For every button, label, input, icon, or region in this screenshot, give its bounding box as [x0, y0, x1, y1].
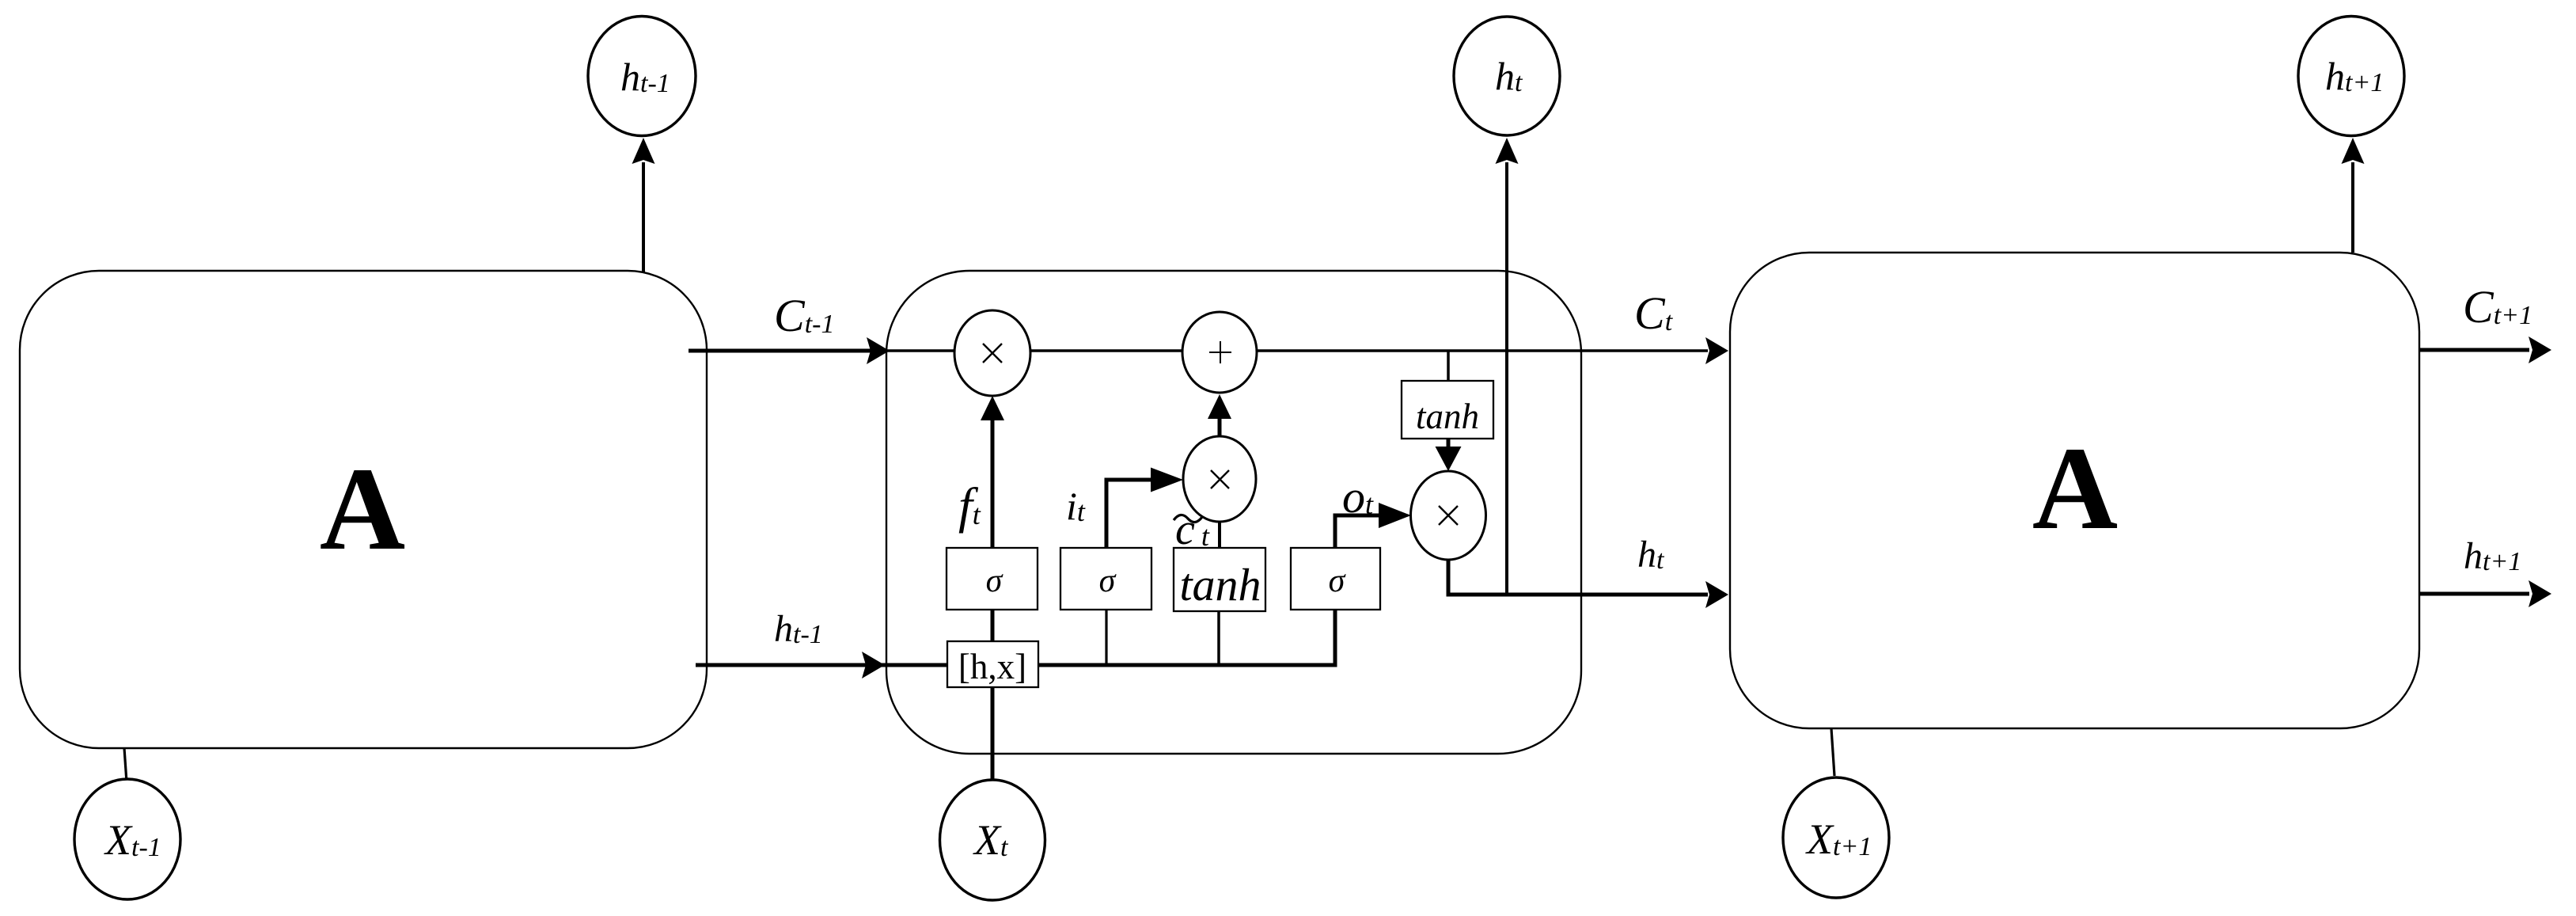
tanh top box — [1402, 381, 1493, 439]
arrowhead h into cell — [862, 652, 885, 678]
block LSTM cell — [886, 271, 1581, 754]
node Xt+1 — [1783, 777, 1889, 898]
svg-text:A: A — [2032, 423, 2118, 554]
wire x2 to tanh-gate — [1218, 522, 1221, 548]
wire ht riser — [1505, 162, 1508, 595]
wire sigma1 to hx — [991, 610, 995, 643]
node Xt — [940, 780, 1045, 900]
svg-text:σ: σ — [1099, 563, 1117, 599]
wire i elbow — [1106, 480, 1162, 548]
svg-text:tanh: tanh — [1179, 559, 1261, 610]
op plus — [1182, 312, 1257, 393]
op mult1 — [954, 310, 1030, 396]
block A left — [20, 271, 707, 748]
wire h t+1 out — [2419, 592, 2529, 596]
op mult3 — [1411, 471, 1486, 560]
wire x3 down — [1447, 558, 1451, 597]
wire ht+1 riser — [2351, 162, 2354, 253]
svg-text:σ: σ — [1329, 563, 1347, 599]
wire hx to Xt — [991, 686, 995, 782]
wire C main — [689, 349, 886, 353]
wire tanh-top to x3 arrow — [1447, 439, 1451, 451]
gate sigma3 box — [1291, 548, 1380, 610]
op mult2 — [1183, 436, 1256, 522]
wire x2 to plus arrow — [1218, 416, 1222, 436]
wire Xt-1 link — [124, 748, 127, 782]
svg-text:tanh: tanh — [1416, 397, 1479, 436]
wire f arrow — [991, 418, 995, 548]
wire o elbow — [1335, 515, 1391, 548]
node Xt-1 — [74, 779, 180, 899]
wire Xt+1 link — [1831, 728, 1834, 776]
arrowhead C into right block — [1705, 337, 1728, 364]
node ht-1 — [588, 17, 696, 136]
gate sigma1 box — [947, 548, 1038, 610]
gate tanh box — [1174, 548, 1265, 611]
svg-text:[h,x]: [h,x] — [958, 647, 1026, 686]
wire h out — [1447, 593, 1709, 597]
block A right — [1730, 253, 2419, 728]
wire ht-1 riser — [642, 162, 645, 272]
node ht+1 — [2298, 17, 2404, 136]
gate sigma2 box — [1060, 548, 1151, 610]
wire sigma3 riser — [1334, 608, 1337, 667]
node ht — [1454, 17, 1560, 135]
wire h input — [696, 663, 1335, 667]
wire sigma2 riser — [1105, 608, 1107, 665]
svg-text:σ: σ — [986, 563, 1004, 599]
svg-text:A: A — [320, 443, 405, 575]
wire C to tanh-top — [1447, 351, 1450, 381]
hx box — [947, 641, 1038, 687]
wire C t+1 out — [2419, 348, 2529, 352]
wire tanh-gate riser — [1217, 608, 1220, 665]
arrowhead C into cell — [867, 337, 890, 364]
